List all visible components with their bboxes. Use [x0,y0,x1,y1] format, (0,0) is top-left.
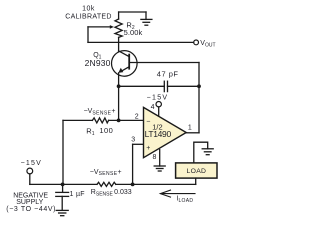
ground above LOAD [202,149,213,155]
pin 8 stub [159,150,161,166]
ground top-right of R2 [141,12,152,25]
node R1/emitter junction [117,119,121,123]
svg-text:LOAD: LOAD [187,168,207,175]
node pin3 junction [131,183,135,187]
wiper arrow of R2 [88,25,114,29]
svg-text:47 pF: 47 pF [157,70,179,79]
svg-text:1 µF: 1 µF [70,191,85,198]
wire left branch vertical [62,120,64,184]
wire 47pF right [168,85,200,87]
terminal VOUT circle [194,40,199,45]
svg-text:RSENSE0.033: RSENSE0.033 [91,189,132,197]
svg-text:2N930: 2N930 [85,58,111,68]
svg-text:R1: R1 [86,126,94,137]
wire -15V drop [29,174,31,185]
svg-text:3: 3 [131,137,135,144]
wire R1 to op-amp pin2 [109,119,144,121]
svg-text:100: 100 [99,126,113,135]
resistor R1 [92,118,108,123]
wire wiper loop left vertical [87,27,89,43]
wire pin3 horizontal [133,143,144,145]
wire R2 top lead [118,12,120,19]
svg-text:−VSENSE+: −VSENSE+ [90,169,122,177]
svg-text:5.00k: 5.00k [124,28,143,37]
node emitter/47pF junction [117,84,121,88]
wire emitter down [118,73,120,121]
pin 4 stub [158,107,160,116]
svg-text:−15V: −15V [147,95,168,102]
node -15V/cap junction [61,183,65,187]
terminal -15V op-amp circle [156,102,161,107]
wire op-amp output [186,132,199,134]
svg-text:+: + [146,145,150,152]
svg-text:8: 8 [153,154,157,161]
wire 47pF left [119,85,165,87]
node 47pF right junction [197,84,201,88]
svg-text:LT1490: LT1490 [145,129,172,139]
resistor R2 [115,19,122,37]
svg-text:ILOAD: ILOAD [177,195,194,203]
svg-text:VOUT: VOUT [200,40,215,48]
svg-text:(−3 TO −44V): (−3 TO −44V) [6,206,56,213]
svg-text:2: 2 [135,113,139,120]
capacitor 1uF [56,184,69,210]
ground pin8 [154,166,165,171]
wire pin3 vertical [132,144,134,184]
svg-text:10k: 10k [82,6,95,13]
ground below 1uF [56,210,68,215]
wire R1 left segment [63,119,92,121]
arrow ILOAD [160,190,195,197]
svg-text:1: 1 [188,125,192,132]
svg-text:CALIBRATED: CALIBRATED [65,13,111,20]
terminal -15V left circle [27,168,33,174]
svg-text:4: 4 [151,104,155,111]
wire bottom rail left [30,183,97,185]
wire right vertical base-to-output [198,63,200,133]
svg-text:−15V: −15V [21,160,42,167]
wire bottom rail right [116,183,196,185]
svg-text:−VSENSE+: −VSENSE+ [84,108,116,116]
resistor RSENSE [97,182,116,186]
wire LOAD bottom [195,178,197,184]
wire R2 bottom to collector node [118,37,120,51]
wire base to right vertical [129,62,199,64]
svg-text:−: − [146,119,150,126]
wire Vout line [88,41,194,43]
op-amp U1 LT1490 [144,107,187,157]
wire LOAD top [194,142,208,163]
LOAD box [176,163,217,178]
wire R2 top to ground [119,11,146,13]
capacitor C1 47pF [164,81,167,91]
transistor Q1 [112,51,138,77]
